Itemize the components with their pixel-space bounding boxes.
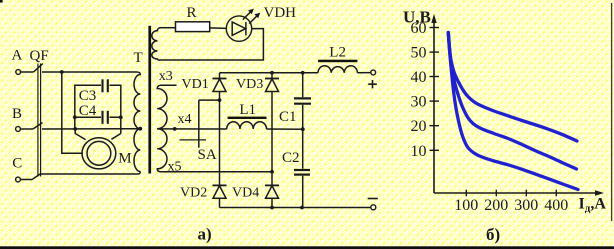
wire C stub [21,179,32,181]
circuit breaker QF linkage bars [37,64,39,177]
wire A to transformer [42,71,137,73]
transformer T primary winding [134,72,140,172]
svg-text:A: A [12,48,23,64]
wire SA branch to left rail [199,99,220,101]
curve bottom characteristic [448,33,578,190]
diode VD1 [213,79,227,92]
svg-text:10: 10 [411,143,427,160]
resistor R body [176,22,210,32]
node middle bus / C1C2 rail dot [301,127,305,131]
svg-text:L2: L2 [329,45,346,61]
terminal A [16,70,21,75]
svg-text:R: R [187,5,197,21]
transformer core [148,26,151,174]
wire A drop to motor [62,72,83,153]
minus sign [368,198,378,200]
x3 tap stub [160,84,177,86]
motor M outer circle [82,138,116,169]
svg-text:50: 50 [411,45,427,62]
x5 wire to right rail [160,171,272,173]
svg-text:B: B [12,106,22,122]
svg-text:C1: C1 [279,109,297,125]
svg-text:VDH: VDH [264,5,297,21]
node box bottom-right dot [119,115,123,119]
wire L1 to C1C2 rail [267,128,303,130]
svg-text:200: 200 [484,197,508,214]
node top bus / C1 rail dot [301,71,305,75]
svg-text:T: T [134,50,143,66]
svg-text:400: 400 [544,197,568,214]
right bridge rail [271,73,273,208]
graph: X ticks [466,190,556,197]
graph: Y axis arrowhead [431,14,436,23]
switch SA blade [198,100,200,148]
svg-text:C4: C4 [79,103,97,119]
diode VD3 [265,79,279,92]
LED VDH circle [226,16,251,41]
node x5 / right rail dot [270,170,274,174]
graph: X axis arrowhead [595,190,604,195]
svg-text:300: 300 [514,197,538,214]
node A junction dot [60,70,64,74]
left bridge rail [219,73,221,208]
diode VD2 [213,185,227,198]
graph: Y ticks [430,28,440,151]
graph: Y tick labels [411,20,427,160]
graph: Y axis [433,18,435,193]
terminal minus [371,205,376,210]
LED VDH triangle [232,22,245,35]
wire C to transformer bottom [41,172,141,175]
motor M inner circle [87,141,111,165]
capacitor C2 plates [294,169,310,171]
bottom bus [220,207,371,209]
motor M lead right slant [111,134,120,140]
switch SA contact stub [180,139,207,141]
svg-text:20: 20 [411,118,427,135]
node primary tap dot [138,127,142,131]
wire A stub [21,71,34,73]
svg-text:VD4: VD4 [232,186,259,201]
bottom black bar [0,246,614,249]
C1 C2 rail [302,73,304,208]
LED VDH arrow 2 [249,16,257,24]
right edge rule [611,3,613,221]
svg-text:VD3: VD3 [236,77,263,92]
svg-text:VD1: VD1 [182,77,209,92]
terminal C [16,177,21,182]
svg-text:a): a) [198,225,212,244]
svg-text:30: 30 [411,94,427,111]
indicator loop right + bottom wire [160,29,264,60]
terminal B [16,127,21,132]
curve middle characteristic [448,33,576,170]
curve top characteristic [448,33,577,142]
LED VDH arrow 1 [243,12,251,20]
svg-text:C3: C3 [79,88,97,104]
capacitor C4 plates [101,111,103,124]
svg-text:C2: C2 [282,150,300,166]
choke L2 core bar [318,60,357,63]
top bus [220,72,319,74]
node top bus / VD3 dot [270,71,274,75]
wire L2 to plus terminal [357,72,370,74]
svg-text:x3: x3 [159,69,173,84]
transformer T secondary winding [157,85,167,172]
node x4 tap dot [173,127,177,131]
motor M lead left slant [75,129,85,140]
node bottom bus / VD4 dot [270,206,274,210]
svg-text:100: 100 [454,197,478,214]
svg-text:б): б) [486,225,500,244]
capacitor C1 plates [294,97,311,99]
node box bottom-left dot [73,115,77,119]
wire B to transformer tap [42,128,140,130]
choke L2 winding [318,66,357,73]
node bottom bus / C2 rail dot [300,206,304,210]
svg-text:C: C [12,156,22,172]
transformer indicator winding [152,28,160,61]
svg-text:x4: x4 [178,112,192,127]
wire resistor to LED [210,27,227,30]
diode VD4 [265,185,279,198]
switch blade QF phase B [33,123,43,129]
choke L1 winding [227,122,267,129]
svg-text:L1: L1 [239,102,256,118]
LED VDH cathode bar [245,22,247,35]
svg-text:U,В: U,В [403,8,431,27]
plus sign [368,80,377,88]
svg-text:M: M [118,151,131,167]
switch blade QF phase C [32,174,41,180]
top-left corner mark [0,0,3,3]
choke L1 core bar [228,117,267,119]
svg-text:Iд,А: Iд,А [579,196,607,215]
node left rail branch dot [218,98,222,102]
indicator loop top wire [160,27,176,29]
svg-text:QF: QF [30,48,49,64]
terminal plus [371,70,376,75]
capacitor C3 plates [101,79,103,92]
svg-text:VD2: VD2 [180,186,207,201]
capacitor box C3/C4 outline [75,85,101,129]
wire B stub [21,128,33,130]
svg-text:40: 40 [411,69,427,86]
graph: X tick labels [454,197,568,214]
svg-text:x5: x5 [168,160,182,175]
node B junction dot [73,127,77,131]
switch blade QF phase A [34,64,43,72]
graph: X axis [434,192,600,194]
svg-text:SA: SA [198,147,217,163]
middle bus x4 to C1C2 rail with choke L1 [157,128,227,130]
